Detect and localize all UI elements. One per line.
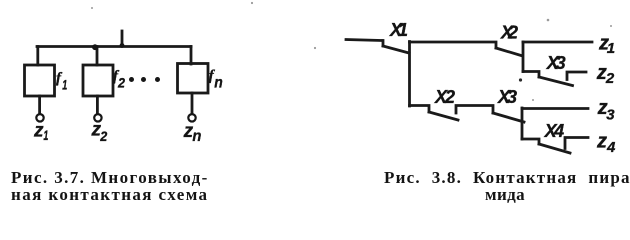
ellipsis dots between boxes [129,77,160,82]
wire X4 contact tick and z4 line [565,138,588,149]
labels right figure [389,20,616,156]
svg-text:1: 1 [62,77,67,93]
svg-text:X3: X3 [497,87,517,107]
box f1 [25,65,55,96]
caption figure 3.7 [11,169,209,203]
wire drop to box f2 [96,47,99,66]
box fn [178,64,209,94]
svg-text:n: n [214,75,223,92]
wire lower branch from trunk [410,106,430,113]
wire X3 upper contact tick and z2 line [567,72,586,80]
wire box f2 to terminal [96,96,99,114]
svg-text:2: 2 [605,70,615,87]
wire X2 upper fixed contact vertical [522,42,525,72]
wire to z3 [522,107,588,110]
svg-text:X4: X4 [544,121,565,141]
labels left figure [33,68,223,145]
wire box fn to terminal [191,93,194,114]
terminal circle zn [188,114,195,121]
svg-text:2: 2 [99,128,107,144]
wire to z1 [523,41,592,44]
node stray dot below X2 upper contact [519,78,522,81]
svg-text:z: z [596,131,607,153]
svg-text:X2: X2 [500,23,518,43]
svg-text:3: 3 [606,106,615,123]
wire X4 branch [522,139,539,144]
wire drop to box f1 [36,47,39,66]
node junction stub blob [120,43,125,48]
svg-text:n: n [192,128,201,145]
svg-text:4: 4 [606,139,616,156]
svg-text:X3: X3 [546,53,566,73]
wire X3 upper branch [523,72,539,78]
contact blade X2 lower [429,112,458,120]
node junction dot on bus [92,44,98,50]
svg-text:1: 1 [43,127,48,143]
svg-text:z: z [33,120,44,141]
wire input X1 [346,40,383,47]
svg-text:2: 2 [117,75,125,91]
contact blade X2 upper [496,48,521,56]
contact blade X4 [539,144,570,153]
box f2 [83,65,113,96]
contact blade X3 lower [493,113,524,122]
contact blade X1 [383,46,409,53]
wire X3 lower fixed contact vertical [521,108,524,139]
terminal circle z1 [36,114,43,121]
wire upper branch to X2 [410,42,497,48]
wire box f1 to terminal [38,96,41,114]
contact blade X3 upper [539,77,573,86]
wire drop to box fn [190,47,193,65]
caption figure 3.8 [384,169,630,186]
svg-text:X1: X1 [389,20,408,40]
svg-text:X2: X2 [434,87,455,107]
wire vertical trunk from X1 contact [408,42,411,107]
scan speckles [91,2,612,101]
wire X2 lower contact tick [456,106,493,114]
wire input stub top left figure [121,31,124,46]
wire bus horizontal [37,45,191,48]
svg-text:1: 1 [607,40,615,57]
terminal circle z2 [94,114,101,121]
right figure: contact pyramid [346,40,592,154]
